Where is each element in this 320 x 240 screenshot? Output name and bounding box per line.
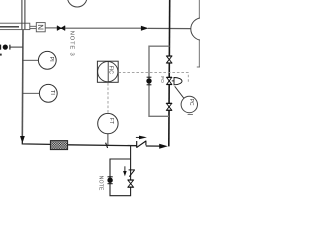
svg-text:FIC: FIC	[108, 66, 114, 74]
ball valve at left edge	[1, 45, 23, 50]
loop check valve (vertical)	[129, 170, 135, 177]
FIC shared-display instrument	[97, 61, 118, 82]
svg-text:FO: FO	[159, 76, 165, 83]
in-line component box with Z symbol	[36, 23, 45, 32]
svg-text:FT: FT	[108, 118, 114, 124]
inline strainer (hatched box)	[50, 141, 67, 150]
bypass globe valve (filled ball)	[146, 77, 151, 85]
wire: drain loop stub and rectangle	[110, 146, 131, 196]
wire: FT down to main line	[107, 134, 109, 146]
check valve on bottom line	[136, 136, 147, 148]
wire: bottom main line	[68, 144, 137, 147]
TI gauge	[23, 84, 58, 102]
wire: elbow to bottom line	[22, 142, 50, 145]
wire: box to valve	[45, 27, 57, 29]
heater element E1 (top-left horizontal body)	[0, 23, 30, 29]
flow arrow on top line	[141, 26, 149, 31]
svg-text:NOTE: NOTE	[98, 176, 104, 191]
wire + flow arrow into right corner	[146, 144, 168, 149]
flow arrow down beside loop	[123, 166, 127, 176]
equipment circle (top right, partial at edge)	[191, 18, 213, 40]
gate valve (filled) on top line	[57, 26, 65, 31]
wire: top process line to arrow	[65, 27, 141, 29]
svg-text:PC: PC	[188, 99, 194, 106]
wire: top line continues to right circle	[148, 27, 191, 29]
loop globe valve (filled ball)	[107, 177, 112, 184]
wire: bypass around control valve	[149, 46, 170, 116]
flow arrow down on left line	[20, 136, 25, 143]
block valve V2 (lower, on right vertical)	[166, 103, 172, 110]
instrument circle (top center, partial at edge)	[67, 0, 87, 7]
flow element tap tick	[106, 143, 108, 148]
wire: vertical below top-right circle with end tick	[197, 40, 200, 67]
signal line (dashed) FIC to control valve	[118, 73, 188, 84]
stub mark at left edge	[0, 54, 2, 56]
PI gauge	[23, 51, 57, 69]
block valve V1 (upper, on right vertical)	[166, 56, 172, 63]
control valve FV with diaphragm actuator	[166, 77, 182, 85]
wire: main right vertical line	[168, 0, 171, 146]
wire: double leads going up from heater	[22, 0, 25, 29]
signal line (dashed) FIC down to FT	[107, 83, 109, 113]
svg-text:TI: TI	[49, 90, 55, 95]
wire: vertical into top-right circle from top	[198, 0, 200, 18]
loop gate valve (vertical bowtie)	[128, 180, 134, 187]
connector between heater and box	[30, 26, 37, 28]
wire: diagonal to positioner circle	[175, 86, 184, 98]
svg-text:PI: PI	[48, 57, 54, 63]
FT transmitter circle	[98, 113, 118, 133]
wire: main left vertical line	[21, 29, 24, 139]
positioner circle PC	[181, 96, 197, 114]
svg-text:NOTE 3: NOTE 3	[69, 31, 75, 57]
